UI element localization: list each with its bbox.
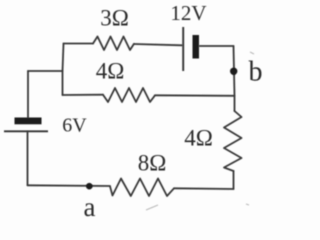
svg-text:b: b [249, 56, 263, 87]
battery V2 6V short thick plate [15, 118, 42, 125]
svg-text:a: a [84, 192, 96, 218]
faint scan smudge bottom center [146, 52, 254, 210]
svg-text:12V: 12V [170, 1, 206, 25]
svg-text:4Ω: 4Ω [96, 59, 125, 84]
wire bus to 4-ohm resistor [63, 94, 104, 96]
wire left connector horizontal [28, 70, 63, 72]
battery V1 12V short thick plate [193, 35, 200, 59]
svg-text:6V: 6V [62, 115, 87, 137]
resistor R4 4Ω vertical [224, 111, 242, 171]
svg-text:3Ω: 3Ω [100, 6, 129, 31]
node a [86, 183, 93, 190]
resistor R3 8Ω [110, 179, 174, 197]
battery V2 6V long plate [4, 130, 48, 132]
wire bottom-right corner to 8-ohm resistor [174, 187, 234, 190]
wire 8-ohm resistor through node a to bottom-left corner [28, 184, 111, 187]
wire 6V battery up to left connector [27, 71, 29, 118]
wire 4-ohm resistor to right vertical [155, 94, 235, 97]
svg-text:4Ω: 4Ω [184, 126, 213, 151]
wire left bus vertical [63, 44, 64, 96]
node b [230, 68, 237, 75]
wire 12V battery to top-right corner [200, 45, 234, 47]
resistor R1 3Ω [93, 37, 134, 51]
wire right vertical through node b [234, 46, 235, 111]
wire vertical resistor to bottom-right corner [233, 171, 235, 189]
resistor R2 4Ω horizontal [103, 88, 155, 102]
svg-text:8Ω: 8Ω [138, 151, 167, 176]
battery V1 12V long plate [182, 27, 184, 71]
wire bottom-left vertical up to 6V battery [27, 132, 29, 185]
wire top-left to 3-ohm resistor [64, 43, 94, 45]
wire 3-ohm resistor to 12V battery [134, 44, 182, 45]
